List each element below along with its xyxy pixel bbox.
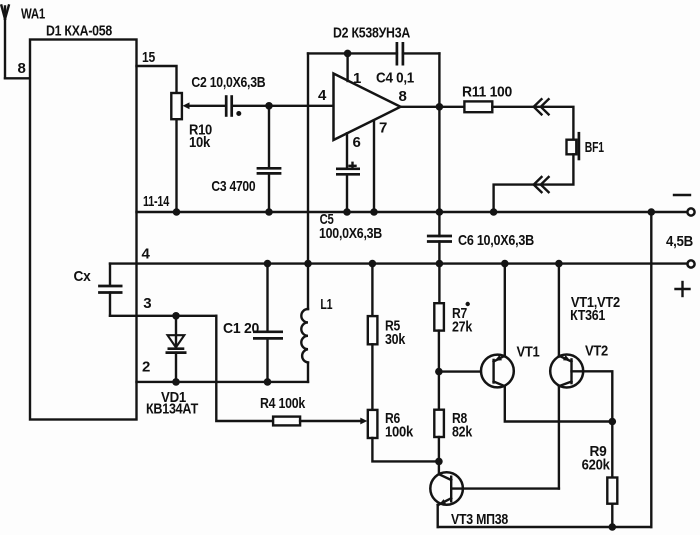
wire pin 15 to R10 — [137, 66, 177, 93]
svg-text:1: 1 — [353, 70, 361, 87]
capacitor Cx — [74, 264, 123, 316]
node BF1 return on minus rail — [490, 208, 498, 216]
svg-text:4: 4 — [318, 87, 327, 104]
svg-text:2: 2 — [142, 359, 150, 376]
node output — [436, 103, 444, 111]
wire C3 top — [268, 106, 270, 168]
svg-text:620k: 620k — [582, 457, 611, 474]
svg-text:8: 8 — [399, 88, 407, 105]
svg-text:6: 6 — [353, 134, 361, 151]
capacitor C1 — [223, 264, 283, 382]
wire VT1 emitter up to plus rail — [504, 264, 506, 357]
wire output vertical down to minus rail — [438, 107, 440, 236]
wire Cx to pin 3 / VD1 — [110, 315, 216, 317]
node VD1 bottom — [172, 378, 180, 386]
svg-text:4: 4 — [142, 246, 151, 263]
wire pin3 feed down to R4 — [216, 316, 273, 421]
node C6 top on minus rail — [436, 208, 444, 216]
label VT1,VT2 KT361 — [570, 294, 620, 324]
svg-text:D1 КХА-058: D1 КХА-058 — [46, 23, 112, 40]
svg-text:КВ134АТ: КВ134АТ — [146, 400, 198, 417]
wire R10 wiper to C2 — [188, 105, 226, 107]
wire VT3 emitter down — [437, 505, 439, 527]
svg-text:C4 0,1: C4 0,1 — [376, 70, 414, 87]
resistor R6 (potentiometer) — [368, 410, 414, 441]
svg-text:100k: 100k — [385, 424, 414, 441]
svg-text:D2 К538УН3А: D2 К538УН3А — [333, 25, 410, 42]
node pin 6 on minus rail — [343, 208, 351, 216]
transistor VT3 — [430, 472, 508, 528]
inductor L1 — [301, 264, 332, 382]
wire plus rail to R7 — [438, 264, 440, 304]
wire op-amp pin 6 down — [346, 133, 348, 168]
wire C3 bottom — [268, 173, 270, 212]
wire C6 bottom to plus rail — [438, 242, 440, 264]
resistor R9 — [582, 422, 618, 528]
node R9 bottom — [609, 523, 617, 531]
node VT1 base — [435, 368, 443, 376]
minus terminal — [674, 195, 695, 216]
wire VT2 collector down — [558, 386, 560, 489]
resistor R10 (potentiometer) — [171, 93, 212, 151]
wire base node to VT1 — [439, 370, 481, 372]
wire R4 to R6 wiper — [300, 420, 361, 422]
svg-text:10k: 10k — [189, 134, 211, 151]
wire right vertical minus to bottom rail — [650, 212, 652, 527]
node VD1 top — [172, 312, 180, 320]
svg-text:30k: 30k — [385, 331, 406, 348]
capacitor C6 — [427, 232, 534, 249]
wire op-amp output to R11 — [401, 106, 465, 108]
antenna WA1 — [1, 6, 45, 79]
wire VT1 collector down and right — [505, 386, 613, 422]
wire VT2 base to R9 node — [572, 371, 613, 421]
wire antenna to IC pin 8 — [5, 77, 30, 79]
transistor VT1 — [481, 344, 540, 388]
varicap VD1 KB134AT — [146, 316, 198, 418]
resistor R11 — [462, 84, 512, 113]
svg-text:Cx: Cx — [74, 268, 92, 285]
resistor R5 — [368, 316, 406, 348]
capacitor C4 — [376, 42, 414, 87]
node VT1 collector / VT2 base / R9 — [609, 418, 617, 426]
node C1 top — [264, 260, 272, 268]
wire C5 bottom — [346, 174, 348, 212]
node right vertical on minus rail — [648, 208, 656, 216]
earphone BF1 — [567, 132, 604, 160]
wire R5 to R6 — [371, 344, 373, 410]
resistor R4 — [260, 395, 306, 426]
node C1 bottom — [264, 378, 272, 386]
wire pin 1 up — [346, 53, 348, 81]
resistor R7 — [434, 302, 472, 336]
svg-text:VT1: VT1 — [517, 344, 540, 361]
IC D1 KXA-058 — [30, 23, 137, 420]
wire VT3 collector to VT2 collector — [451, 487, 559, 489]
op-amp U1 D2 K538UN3A — [318, 25, 410, 152]
transistor VT2 — [550, 343, 608, 388]
wire right vertical C4 to output — [438, 53, 440, 106]
node C3 top — [265, 102, 273, 110]
capacitor C3 — [211, 168, 281, 195]
svg-text:С6 10,0X6,3В: С6 10,0X6,3В — [458, 232, 534, 249]
svg-text:C2 10,0X6,3В: C2 10,0X6,3В — [191, 74, 265, 91]
svg-text:VT3 МП38: VT3 МП38 — [451, 511, 508, 528]
node pin1 / C4 line — [344, 50, 352, 58]
resistor R8 — [434, 410, 472, 441]
svg-text:С1 20: С1 20 — [223, 320, 259, 337]
wire R6 bottom to VT3 base node — [372, 438, 439, 461]
capacitor C2 — [191, 74, 265, 117]
plus rail (pin 4) — [110, 262, 688, 264]
wire R7 to R8 — [438, 331, 440, 410]
minus rail (pins 11-14) — [137, 211, 688, 213]
svg-text:4,5В: 4,5В — [666, 233, 693, 250]
wire R11 to BF1 — [492, 107, 573, 140]
wire R10 bottom to minus rail — [175, 119, 177, 212]
node R5 top — [369, 260, 377, 268]
node C3 bottom — [265, 208, 273, 216]
wire VT2 emitter up to plus rail — [558, 264, 560, 357]
node VT1 emitter on plus rail — [501, 260, 509, 268]
wire left vertical from top line to L1 node — [307, 53, 309, 263]
svg-text:КТ361: КТ361 — [570, 307, 605, 324]
pin 2 rail — [137, 381, 309, 383]
bottom rail — [438, 526, 652, 528]
wire R5 top — [371, 264, 373, 317]
capacitor C5 (electrolytic) — [319, 163, 382, 242]
svg-text:R4 100k: R4 100k — [260, 395, 306, 412]
svg-text:82k: 82k — [452, 424, 473, 441]
node R6/R8/VT3 base — [435, 458, 443, 466]
node pin 7 on minus rail — [370, 208, 378, 216]
svg-text:C3 4700: C3 4700 — [211, 178, 255, 195]
node C6/R7 on plus rail — [436, 260, 444, 268]
wire BF1 bottom return — [494, 154, 574, 212]
svg-text:WA1: WA1 — [21, 6, 45, 23]
node L1 top — [304, 260, 312, 268]
wire top feedback line right part — [403, 52, 440, 54]
svg-text:8: 8 — [18, 60, 26, 77]
svg-text:BF1: BF1 — [585, 139, 604, 156]
wire R8 bottom to VT3 base — [438, 437, 440, 474]
svg-text:11-14: 11-14 — [143, 193, 170, 210]
connector chevron top — [534, 99, 549, 114]
svg-text:7: 7 — [379, 120, 387, 137]
node VT2 emitter on plus rail — [555, 260, 563, 268]
connector chevron bottom — [534, 177, 549, 192]
wire C2 to op-amp input — [232, 105, 334, 107]
svg-text:100,0X6,3В: 100,0X6,3В — [319, 225, 382, 242]
wire op-amp pin 7 down — [373, 120, 375, 212]
plus terminal — [676, 260, 695, 296]
svg-text:VT2: VT2 — [585, 343, 608, 360]
svg-text:15: 15 — [142, 49, 155, 66]
wire top feedback line left part — [308, 52, 397, 54]
svg-text:L1: L1 — [320, 296, 332, 313]
svg-text:R11 100: R11 100 — [462, 84, 512, 101]
node R10 on minus rail — [173, 208, 181, 216]
svg-text:3: 3 — [143, 295, 151, 312]
svg-text:27k: 27k — [452, 319, 473, 336]
